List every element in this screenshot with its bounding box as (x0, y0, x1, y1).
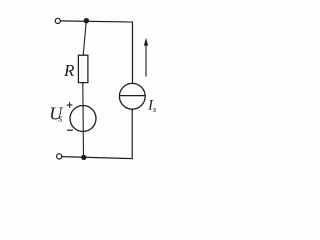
wire: resistor through voltage source to bottom rail (82, 83, 85, 158)
wire: right branch top (132, 22, 134, 84)
polarity minus (67, 129, 73, 131)
svg-text:R: R (63, 61, 75, 80)
svg-text:s: s (58, 114, 62, 125)
wire: top rail (61, 21, 133, 22)
junction: bottom node (81, 155, 86, 160)
junction: top node (84, 18, 89, 23)
polarity plus (67, 102, 73, 108)
current direction arrow (144, 38, 148, 77)
wire: bottom rail (62, 157, 133, 159)
wire: top junction to resistor (83, 22, 86, 56)
wire: right branch bottom (131, 109, 133, 158)
current source Is (119, 83, 145, 109)
resistor R (78, 55, 88, 82)
terminal: bottom-left open circle (57, 154, 62, 159)
current source bar (120, 95, 145, 97)
voltage source Us (70, 106, 96, 132)
terminal: top-left open circle (55, 18, 60, 23)
